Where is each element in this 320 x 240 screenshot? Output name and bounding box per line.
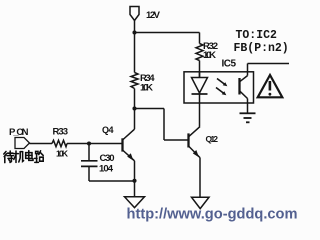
label standby circuit (Chinese) bbox=[4, 151, 43, 163]
transistor Q12 bbox=[189, 127, 201, 158]
ground arrow (left) bbox=[125, 197, 145, 208]
node junction B (R34 / Q4 collector / link to Q12) bbox=[132, 106, 136, 110]
svg-text:P_ON: P_ON bbox=[9, 127, 29, 138]
wire R34 bottom lead bbox=[134, 89, 136, 109]
wire photo collector riser bbox=[247, 64, 249, 76]
optocoupler phototransistor bbox=[240, 76, 248, 99]
svg-text:http://www.go-gddq.com: http://www.go-gddq.com bbox=[127, 206, 298, 223]
node junction C (C30 tap) bbox=[87, 141, 91, 145]
transistor Q4 bbox=[123, 129, 135, 161]
wire R33 to Q4 base bbox=[67, 143, 123, 145]
wire junction D to ground arrow bbox=[134, 181, 136, 197]
svg-text:R33: R33 bbox=[53, 127, 69, 138]
svg-text:104: 104 bbox=[99, 164, 114, 175]
wire P_ON to R33 bbox=[30, 143, 53, 145]
resistor R34 bbox=[131, 73, 138, 89]
warning triangle bbox=[258, 75, 283, 97]
svg-text:Q12: Q12 bbox=[206, 134, 219, 144]
power 12V bbox=[130, 7, 139, 21]
capacitor C30 bbox=[81, 160, 98, 162]
svg-text:12V: 12V bbox=[146, 10, 161, 21]
svg-text:FB(P:n2): FB(P:n2) bbox=[234, 42, 289, 55]
wire Q12 collector riser / LED cathode bbox=[199, 95, 201, 127]
svg-text:10K: 10K bbox=[56, 149, 69, 159]
optocoupler IC5 box bbox=[184, 72, 254, 103]
wire Q4 emitter drop bbox=[134, 161, 136, 181]
wire Q4 collector riser bbox=[134, 109, 136, 130]
wire bottom horizontal to emitter junction bbox=[89, 180, 135, 182]
wire Q12 emitter drop bbox=[199, 158, 201, 198]
svg-text:TO:IC2: TO:IC2 bbox=[236, 29, 278, 42]
svg-text:10K: 10K bbox=[140, 83, 153, 94]
wire R32 bottom lead to optocoupler anode bbox=[199, 61, 201, 78]
port P_ON bbox=[15, 138, 30, 149]
svg-text:Q4: Q4 bbox=[102, 125, 114, 135]
ground arrow (right) bbox=[192, 197, 210, 208]
node junction A (12V rail split) bbox=[132, 30, 136, 34]
optocoupler LED bbox=[192, 72, 208, 94]
svg-text:C30: C30 bbox=[100, 153, 115, 164]
wire junction B to right bbox=[135, 108, 165, 110]
resistor R33 bbox=[52, 140, 67, 146]
wire down toward Q12 base bbox=[163, 109, 165, 141]
ground (optocoupler emitter) bbox=[240, 113, 256, 122]
wire photo emitter drop bbox=[247, 99, 249, 114]
wire R32 top lead bbox=[199, 33, 201, 44]
resistor R32 bbox=[196, 44, 203, 61]
svg-text:IC5: IC5 bbox=[222, 59, 237, 70]
light arrows bbox=[216, 79, 227, 96]
wire 12V stem bbox=[134, 21, 136, 33]
wire left rail down to R34 bbox=[134, 33, 136, 73]
svg-text:10K: 10K bbox=[203, 50, 216, 61]
node junction D (emitter / C30 / ground) bbox=[132, 179, 136, 183]
wire C30 bottom lead bbox=[88, 166, 90, 181]
capacitor C30 top lead bbox=[88, 144, 90, 161]
wire top rail horizontal bbox=[135, 32, 200, 34]
wire to Q12 base bbox=[164, 139, 189, 141]
wire output to FB bbox=[248, 63, 290, 65]
